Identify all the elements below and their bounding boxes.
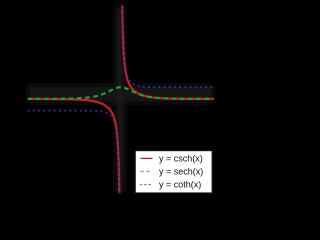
legend sample sech bbox=[141, 171, 153, 173]
compression haze horizontal band bbox=[28, 85, 213, 103]
legend box bbox=[135, 151, 212, 193]
curve coth(x) negative branch bbox=[28, 111, 120, 216]
svg-text:y = sech(x): y = sech(x) bbox=[159, 167, 203, 177]
curve coth(x) positive branch bbox=[122, 0, 214, 87]
curve csch(x) negative branch bbox=[28, 99, 120, 216]
compression haze vertical band bbox=[115, 6, 125, 192]
svg-text:y = csch(x): y = csch(x) bbox=[159, 153, 203, 163]
legend sample csch bbox=[141, 157, 153, 159]
curve csch(x) positive branch bbox=[122, 0, 214, 99]
curve sech(x) bbox=[28, 87, 214, 99]
legend sample coth bbox=[141, 184, 153, 186]
svg-text:y = coth(x): y = coth(x) bbox=[159, 180, 201, 190]
